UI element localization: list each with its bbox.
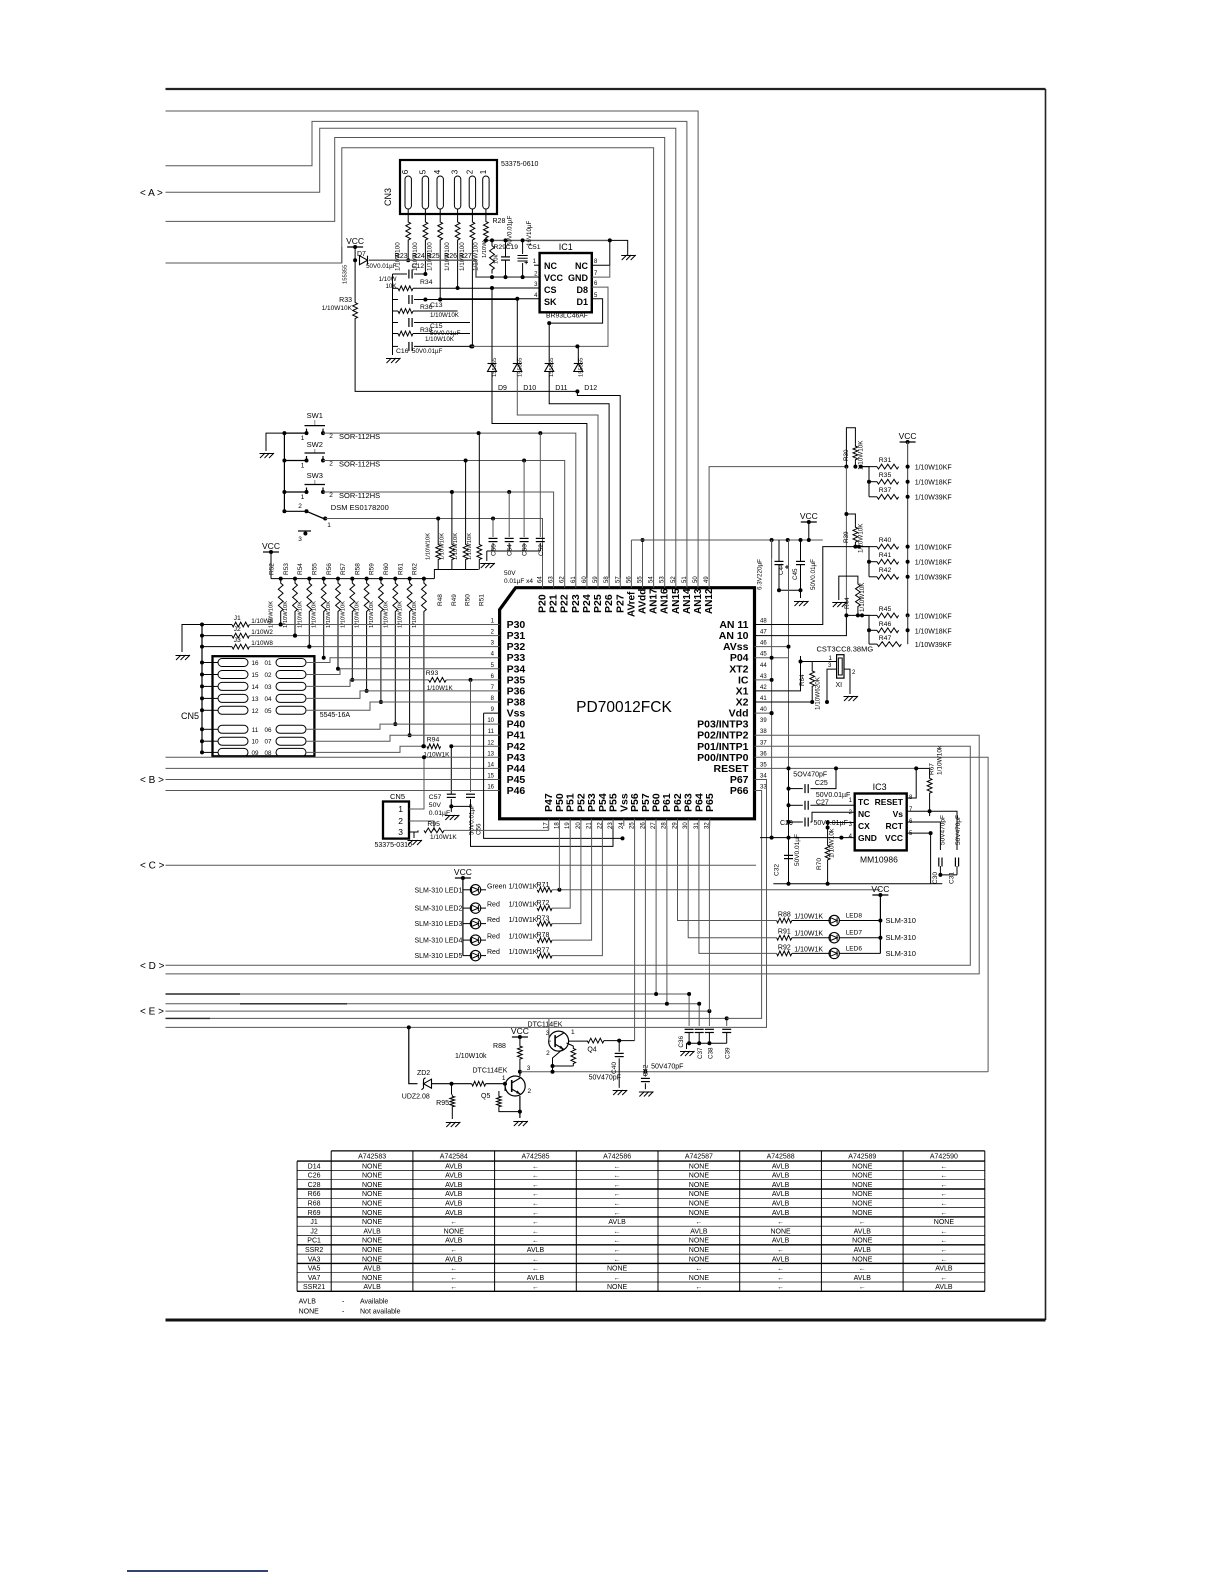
svg-text:1/10W39KF: 1/10W39KF <box>915 575 952 582</box>
capacitor C42 50V470pF <box>643 1070 647 1074</box>
resistor R33 1/10W10K <box>354 260 356 300</box>
svg-text:AVLB: AVLB <box>772 1163 790 1170</box>
svg-text:VCC: VCC <box>800 511 818 521</box>
svg-text:←: ← <box>532 1266 539 1273</box>
svg-text:50V470pF: 50V470pF <box>939 815 946 845</box>
svg-text:AN12: AN12 <box>704 588 715 614</box>
svg-text:R68: R68 <box>308 1201 321 1208</box>
svg-text:155355: 155355 <box>492 358 498 377</box>
svg-text:R38: R38 <box>420 327 433 334</box>
svg-text:AVLB: AVLB <box>445 1256 463 1263</box>
wire R94 to C57 <box>450 746 452 794</box>
svg-text:C42: C42 <box>643 1064 650 1076</box>
Q4 emitter to long row <box>553 1049 564 1072</box>
svg-text:A742585: A742585 <box>521 1154 549 1161</box>
wire row pin16 <box>166 790 500 792</box>
capacitor C56 50V0.01uF <box>470 680 472 792</box>
wire row pin15 node B <box>166 779 500 781</box>
svg-text:VA3: VA3 <box>308 1256 321 1263</box>
footer link line <box>127 1570 268 1572</box>
wire AVss row <box>755 646 789 648</box>
svg-text:08: 08 <box>264 750 272 757</box>
svg-text:C36: C36 <box>678 1036 685 1048</box>
svg-text:NONE: NONE <box>852 1182 873 1189</box>
capacitor C40 50V470pF <box>618 1041 620 1052</box>
svg-text:37: 37 <box>760 740 767 746</box>
svg-text:C38: C38 <box>707 1047 714 1059</box>
svg-text:1/10W10K: 1/10W10K <box>355 601 361 628</box>
transistor Q4 DTC114EK <box>549 1031 569 1051</box>
svg-text:AN17: AN17 <box>649 588 660 614</box>
svg-text:AVLB: AVLB <box>445 1210 463 1217</box>
resonator pin2 to ground <box>844 669 850 694</box>
svg-text:Red: Red <box>487 949 500 956</box>
svg-text:←: ← <box>614 1238 621 1245</box>
svg-text:P46: P46 <box>507 785 526 797</box>
svg-text:R50: R50 <box>465 594 472 606</box>
svg-text:VCC: VCC <box>885 833 903 843</box>
svg-text:35: 35 <box>760 762 767 768</box>
wire long row to pin36 <box>755 757 989 1071</box>
svg-text:1/10W39KF: 1/10W39KF <box>915 495 952 502</box>
jumper J2 resistor <box>200 634 204 638</box>
svg-text:C45: C45 <box>792 568 799 580</box>
svg-text:R33: R33 <box>339 297 352 304</box>
wire top rail R28-IC1 <box>483 239 610 241</box>
svg-text:LED7: LED7 <box>846 930 863 937</box>
svg-text:1/10W8: 1/10W8 <box>251 640 273 647</box>
svg-text:41: 41 <box>760 696 767 702</box>
connector CN5-3pin 53375-0310 <box>383 802 409 839</box>
svg-text:SLM-310 LED2: SLM-310 LED2 <box>415 906 463 913</box>
svg-text:AVLB: AVLB <box>363 1228 381 1235</box>
svg-text:SLM-310 LED4: SLM-310 LED4 <box>415 938 463 945</box>
svg-text:0.01µF x4: 0.01µF x4 <box>504 578 533 585</box>
svg-text:AVLB: AVLB <box>363 1284 381 1291</box>
svg-text:D12: D12 <box>584 385 597 392</box>
wire SW1 row to P23 column <box>323 433 576 578</box>
svg-text:AVLB: AVLB <box>690 1228 708 1235</box>
svg-text:1: 1 <box>301 463 305 470</box>
svg-text:R46: R46 <box>879 621 892 628</box>
svg-text:AVLB: AVLB <box>772 1256 790 1263</box>
resistor R28 1/10W100 <box>484 219 489 240</box>
svg-text:16: 16 <box>251 660 259 667</box>
wire D12 to P27 column <box>577 391 620 578</box>
svg-text:2: 2 <box>329 433 333 440</box>
svg-text:1: 1 <box>301 435 305 442</box>
R64 top wire <box>800 656 802 662</box>
svg-text:←: ← <box>695 1284 702 1291</box>
svg-text:C25: C25 <box>815 780 828 787</box>
svg-text:03: 03 <box>264 684 272 691</box>
svg-text:14: 14 <box>251 684 259 691</box>
capacitors C36-C39 <box>685 1028 694 1030</box>
jumper J1 resistor <box>200 623 204 627</box>
svg-text:AN13: AN13 <box>693 588 704 614</box>
svg-text:←: ← <box>614 1256 621 1263</box>
svg-text:P65: P65 <box>704 793 716 812</box>
wire P60 column to row E1 <box>655 826 657 994</box>
svg-text:AVLB: AVLB <box>445 1238 463 1245</box>
wire CN3 pin3 column <box>457 243 459 288</box>
svg-text:VCC: VCC <box>871 884 889 894</box>
svg-text:AVLB: AVLB <box>854 1228 872 1235</box>
svg-text:R51: R51 <box>478 594 485 606</box>
wire E5 to ZD2 via riser <box>409 1027 418 1083</box>
svg-text:R39: R39 <box>843 531 850 543</box>
svg-text:VCC: VCC <box>511 1026 529 1036</box>
resistor R41 <box>859 547 869 577</box>
CN5 pin pair 13/04 <box>218 694 248 702</box>
svg-text:NONE: NONE <box>934 1219 955 1226</box>
svg-text:1/10W10K: 1/10W10K <box>467 533 473 560</box>
resistor R30 1/10W10K <box>846 428 855 467</box>
svg-text:1/10W10K: 1/10W10K <box>383 601 389 628</box>
svg-text:AVLB: AVLB <box>772 1201 790 1208</box>
LED LED8 SLM-310 <box>792 920 829 922</box>
svg-text:AVLB: AVLB <box>445 1163 463 1170</box>
svg-text:D11: D11 <box>555 385 567 392</box>
wire P04 row <box>755 657 789 659</box>
svg-text:NONE: NONE <box>689 1191 710 1198</box>
CN5 pin pair 11/06 <box>218 725 248 733</box>
CN5 pin pair 09/08 <box>218 748 248 756</box>
svg-text:04: 04 <box>264 696 272 703</box>
svg-text:D1: D1 <box>576 297 588 307</box>
svg-text:Red: Red <box>487 902 500 909</box>
svg-text:AVLB: AVLB <box>445 1201 463 1208</box>
svg-text:Q4: Q4 <box>587 1047 596 1054</box>
svg-text:←: ← <box>940 1163 947 1170</box>
resonator pin3 <box>827 669 837 702</box>
wire row E3 node E to pin32 column <box>166 1011 710 1026</box>
svg-text:NC: NC <box>544 261 557 271</box>
svg-text:AVLB: AVLB <box>445 1182 463 1189</box>
svg-text:R93: R93 <box>426 670 439 677</box>
svg-text:< B >: < B > <box>140 775 164 786</box>
wire bank step <box>434 570 478 579</box>
svg-text:3: 3 <box>527 1065 531 1072</box>
svg-text:←: ← <box>859 1284 866 1291</box>
svg-text:CX: CX <box>858 821 870 831</box>
zener diode ZD2 UDZ2.08 <box>424 1079 432 1088</box>
svg-text:Q5: Q5 <box>481 1093 490 1100</box>
svg-text:R30: R30 <box>843 449 850 461</box>
svg-text:CN5: CN5 <box>390 792 405 801</box>
svg-text:C32: C32 <box>774 864 781 876</box>
svg-text:R62: R62 <box>412 563 419 575</box>
wire Vdd row <box>755 712 772 714</box>
wire Q4 base from row <box>549 1019 551 1041</box>
svg-text:NONE: NONE <box>770 1228 791 1235</box>
svg-text:AVLB: AVLB <box>772 1191 790 1198</box>
svg-text:AN14: AN14 <box>682 588 693 614</box>
svg-text:LED8: LED8 <box>846 913 863 920</box>
svg-text:NONE: NONE <box>444 1228 465 1235</box>
svg-text:2: 2 <box>465 169 474 174</box>
resistor R26 1/10W100 <box>455 219 460 243</box>
svg-text:R45: R45 <box>879 606 892 613</box>
svg-text:< D >: < D > <box>140 961 165 972</box>
svg-text:J2: J2 <box>234 626 241 633</box>
svg-text:NONE: NONE <box>689 1210 710 1217</box>
resistor R25 1/10W100 <box>438 219 443 243</box>
wire row pin13 <box>166 756 500 758</box>
svg-text:1/10W1K: 1/10W1K <box>509 902 538 909</box>
svg-text:←: ← <box>532 1191 539 1198</box>
wire row node C <box>166 864 757 866</box>
svg-text:NONE: NONE <box>852 1173 873 1180</box>
svg-text:R71: R71 <box>537 882 550 889</box>
svg-text:←: ← <box>532 1163 539 1170</box>
svg-text:06: 06 <box>264 727 272 734</box>
svg-text:1: 1 <box>327 522 331 529</box>
svg-text:53375-0610: 53375-0610 <box>501 161 538 168</box>
svg-text:MM10986: MM10986 <box>860 855 898 865</box>
svg-text:NONE: NONE <box>299 1309 320 1316</box>
svg-text:02: 02 <box>264 672 272 679</box>
svg-text:R67: R67 <box>929 763 936 775</box>
wire CN3 pin5 column <box>424 243 426 274</box>
svg-text:R48: R48 <box>437 594 444 606</box>
svg-text:C52: C52 <box>538 544 545 556</box>
power VCC LED block <box>455 877 471 879</box>
wire row node D to pin37 riser <box>166 746 971 965</box>
svg-text:RCT: RCT <box>886 821 904 831</box>
svg-text:AVLB: AVLB <box>772 1210 790 1217</box>
svg-text:←: ← <box>940 1228 947 1235</box>
svg-text:A742590: A742590 <box>930 1154 958 1161</box>
svg-text:P66: P66 <box>730 785 749 797</box>
resistor R48 1/10W10K <box>437 519 439 543</box>
svg-text:AVLB: AVLB <box>854 1275 872 1282</box>
svg-text:AVLB: AVLB <box>363 1266 381 1273</box>
svg-text:1/10W10K: 1/10W10K <box>326 601 332 628</box>
capacitor C54 <box>508 492 510 537</box>
svg-text:1/10W10K: 1/10W10K <box>398 601 404 628</box>
IC1 pin1 stub <box>534 264 540 266</box>
capacitor C55 <box>492 519 494 538</box>
svg-text:AVdd: AVdd <box>638 589 649 614</box>
svg-text:C53: C53 <box>522 544 529 556</box>
svg-text:←: ← <box>614 1163 621 1170</box>
svg-text:1/10W10K: 1/10W10K <box>312 601 318 628</box>
svg-text:2: 2 <box>398 816 403 826</box>
svg-text:Vs: Vs <box>893 809 904 819</box>
svg-text:CST3CC8.38MG: CST3CC8.38MG <box>817 645 874 654</box>
svg-text:0.01µF: 0.01µF <box>429 810 450 817</box>
IC PD70012FCK microcontroller <box>500 588 755 819</box>
wire R33 to D12 column <box>355 321 577 391</box>
svg-text:48: 48 <box>760 619 767 625</box>
svg-text:R37: R37 <box>879 487 892 494</box>
power VCC ladder rail <box>900 441 916 443</box>
svg-text:6.3V220µF: 6.3V220µF <box>757 559 764 590</box>
wire ladder bus down <box>845 467 847 616</box>
wire D11 to P26 column <box>549 372 609 579</box>
svg-text:R27: R27 <box>459 253 472 260</box>
svg-text:J2: J2 <box>310 1228 318 1235</box>
svg-text:11: 11 <box>488 729 495 735</box>
svg-text:R25: R25 <box>427 253 440 260</box>
wire AVref AVdd columns to C44 row <box>630 540 632 578</box>
svg-text:Red: Red <box>487 934 500 941</box>
IC3 pin8 wire R67 <box>907 768 917 798</box>
svg-text:AVLB: AVLB <box>772 1238 790 1245</box>
svg-text:C57: C57 <box>429 794 442 801</box>
svg-text:1/10W10k: 1/10W10k <box>936 745 943 775</box>
svg-text:NONE: NONE <box>852 1256 873 1263</box>
resistor R24 1/10W100 <box>423 219 428 243</box>
resistor base Q5 <box>472 1081 486 1086</box>
availability table <box>331 1150 985 1152</box>
svg-text:←: ← <box>777 1284 784 1291</box>
svg-text:01: 01 <box>264 660 272 667</box>
svg-text:Not available: Not available <box>360 1309 401 1316</box>
svg-text:ZD2: ZD2 <box>417 1070 430 1077</box>
wire Vss pin9 rail <box>484 712 500 714</box>
svg-text:16V10µF: 16V10µF <box>526 221 533 246</box>
svg-text:AVLB: AVLB <box>527 1275 545 1282</box>
wire D10 to P25 column <box>517 372 598 579</box>
svg-text:Available: Available <box>360 1299 388 1306</box>
svg-text:50V0.01µF: 50V0.01µF <box>814 820 848 827</box>
svg-text:←: ← <box>450 1219 457 1226</box>
svg-text:←: ← <box>532 1238 539 1245</box>
svg-text:C56: C56 <box>476 823 483 835</box>
svg-text:A742586: A742586 <box>603 1154 631 1161</box>
svg-text:1/10W10K: 1/10W10K <box>439 533 445 560</box>
svg-text:SLM-310 LED5: SLM-310 LED5 <box>415 953 463 960</box>
svg-text:1/10W8: 1/10W8 <box>251 618 273 625</box>
capacitor C53 <box>523 461 525 538</box>
svg-text:R61: R61 <box>397 563 404 575</box>
svg-text:SSR2: SSR2 <box>305 1247 323 1254</box>
svg-text:NONE: NONE <box>689 1275 710 1282</box>
svg-text:42: 42 <box>760 685 767 691</box>
svg-text:←: ← <box>940 1191 947 1198</box>
svg-text:R72: R72 <box>537 900 550 907</box>
svg-text:R57: R57 <box>340 563 347 575</box>
svg-text:R42: R42 <box>879 567 892 574</box>
svg-text:NONE: NONE <box>362 1191 383 1198</box>
svg-text:←: ← <box>777 1266 784 1273</box>
svg-text:GND: GND <box>568 273 589 283</box>
svg-text:NONE: NONE <box>689 1256 710 1263</box>
resistor R49 1/10W10K <box>451 492 453 542</box>
svg-text:6: 6 <box>401 169 410 174</box>
svg-text:1/10W10KF: 1/10W10KF <box>915 545 952 552</box>
svg-text:1/10W10K: 1/10W10K <box>283 601 289 628</box>
svg-text:C28: C28 <box>308 1182 321 1189</box>
svg-text:Green: Green <box>487 883 507 890</box>
svg-text:50V0.01µF: 50V0.01µF <box>507 215 514 246</box>
svg-text:AVLB: AVLB <box>772 1182 790 1189</box>
resistor R51 1/10W10K <box>478 433 480 542</box>
wire LED3 to chip column <box>552 826 581 924</box>
ground CN5-3 <box>413 832 415 838</box>
svg-text:TC: TC <box>858 797 869 807</box>
IC1 pin3 wire CS to D9 column <box>492 287 540 289</box>
svg-text:P25: P25 <box>592 594 604 613</box>
svg-text:R29: R29 <box>494 244 507 251</box>
svg-text:←: ← <box>940 1173 947 1180</box>
wire RESET row extended <box>755 767 917 769</box>
svg-text:SK: SK <box>544 297 557 307</box>
svg-text:DTC114EK: DTC114EK <box>528 1022 563 1029</box>
svg-text:3: 3 <box>398 827 403 837</box>
outer border frame <box>166 88 1046 90</box>
svg-text:40: 40 <box>760 707 767 713</box>
svg-text:A742583: A742583 <box>358 1154 386 1161</box>
svg-text:←: ← <box>859 1266 866 1273</box>
svg-text:D10: D10 <box>523 385 536 392</box>
svg-text:←: ← <box>450 1275 457 1282</box>
power VCC top-left <box>347 246 363 248</box>
svg-text:XI: XI <box>835 682 842 689</box>
wire X1 to resonator <box>755 662 837 691</box>
svg-text:NONE: NONE <box>362 1238 383 1245</box>
IC1 pin4 wire SK to D10 column <box>440 298 540 300</box>
diode D7 1SS355 <box>354 247 356 260</box>
svg-text:R54: R54 <box>297 563 304 575</box>
svg-text:R59: R59 <box>369 563 376 575</box>
wire row E2 to C37 <box>166 1004 700 1026</box>
svg-text:07: 07 <box>264 739 272 746</box>
svg-text:C16: C16 <box>396 348 409 355</box>
svg-text:1/10W10K: 1/10W10K <box>426 533 432 560</box>
svg-text:10k: 10k <box>494 255 500 264</box>
IC3 pin6 RCT wire to C30 <box>907 822 941 850</box>
resistor R96 <box>451 1084 453 1095</box>
Q4 emitter resistor <box>571 1046 576 1066</box>
svg-text:SLM-310: SLM-310 <box>886 933 916 942</box>
wire bus L2 <box>166 121 687 578</box>
svg-text:R95: R95 <box>436 1100 449 1107</box>
resistor R88b 1/10W10k pullup <box>512 1036 528 1038</box>
svg-text:50V470pF: 50V470pF <box>955 815 962 845</box>
svg-text:←: ← <box>532 1182 539 1189</box>
svg-text:VCC: VCC <box>262 541 280 551</box>
svg-text:1/10W1K: 1/10W1K <box>509 934 538 941</box>
svg-text:←: ← <box>532 1219 539 1226</box>
capacitor C51 16V10uF electrolytic <box>522 240 524 254</box>
svg-text:←: ← <box>614 1191 621 1198</box>
diode D11 1SS355 <box>548 323 550 362</box>
svg-text:NONE: NONE <box>607 1284 628 1291</box>
svg-text:PD70012FCK: PD70012FCK <box>576 699 672 716</box>
IC1 pin6 D8 wire <box>471 287 608 346</box>
svg-text:< C >: < C > <box>140 861 165 872</box>
resistor R95 1/10W1K <box>409 830 418 832</box>
svg-text:←: ← <box>450 1266 457 1273</box>
wire CN5-3 pin1 <box>409 757 424 809</box>
svg-text:←: ← <box>940 1182 947 1189</box>
svg-text:1/10W10K: 1/10W10K <box>453 533 459 560</box>
svg-text:C54: C54 <box>507 544 514 556</box>
CN5 pin pair 15/02 <box>218 671 248 679</box>
wire row pin14 <box>166 767 500 769</box>
svg-text:53375-0310: 53375-0310 <box>375 842 412 849</box>
svg-text:AVLB: AVLB <box>854 1247 872 1254</box>
wire VCC rail to IC1 pin2 <box>369 260 540 277</box>
svg-text:R66: R66 <box>308 1191 321 1198</box>
svg-text:←: ← <box>532 1210 539 1217</box>
svg-text:R53: R53 <box>283 563 290 575</box>
svg-text:IC1: IC1 <box>559 242 573 252</box>
wire to riser <box>634 826 636 1041</box>
